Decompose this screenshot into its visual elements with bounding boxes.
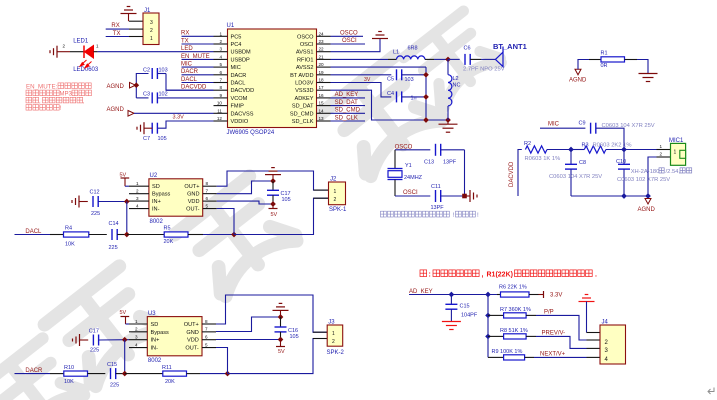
ground (C16): [273, 309, 289, 311]
resistor R7 360K: [488, 314, 504, 316]
wire VDD pin to C16 bottom: [216, 339, 281, 341]
node C16 top junction: [278, 314, 284, 320]
svg-text:8: 8: [205, 319, 208, 324]
resistor R2 1K: [525, 146, 547, 153]
U3 pin 6 stub: [202, 339, 216, 341]
svg-text:1: 1: [674, 150, 677, 156]
U2 pin 7 stub: [203, 193, 217, 195]
svg-text:R6 22K 1%: R6 22K 1%: [499, 285, 527, 291]
wire R1 to ground: [637, 60, 648, 74]
U1 pin 2 stub: [214, 43, 228, 45]
svg-text:103: 103: [159, 68, 168, 74]
svg-text:2: 2: [219, 39, 222, 44]
svg-text:10K: 10K: [65, 242, 75, 248]
svg-text:C13: C13: [424, 159, 434, 165]
svg-text:DACL: DACL: [181, 77, 198, 83]
svg-text:1: 1: [334, 189, 337, 195]
svg-text:C5: C5: [387, 77, 394, 83]
wire LED net: [98, 51, 214, 53]
ground for C7: [144, 127, 152, 129]
svg-text:C15: C15: [107, 362, 117, 368]
wire SD_CMD stub: [331, 112, 366, 114]
capacitor C3 102 (VCOM): [136, 97, 148, 99]
ground (crystal): [465, 195, 471, 197]
svg-text:2: 2: [334, 197, 337, 203]
wire TX to J1: [129, 36, 143, 38]
svg-text:102: 102: [159, 92, 168, 98]
resistor R3 2K2: [571, 149, 584, 151]
U3 pin 2 stub: [129, 331, 147, 333]
svg-text:R7 360K 1%: R7 360K 1%: [500, 307, 531, 313]
power 5V (C17): [272, 204, 274, 209]
svg-text:AGND: AGND: [107, 84, 125, 90]
U1 pin 5 stub: [214, 66, 228, 68]
wire SD_CLK stub: [331, 120, 366, 122]
connector J4: [587, 339, 601, 341]
svg-text:7: 7: [206, 188, 209, 193]
svg-text:RX: RX: [181, 31, 189, 37]
U2 pin 3 stub: [129, 200, 149, 202]
svg-text:1: 1: [332, 331, 335, 337]
svg-text:!: !: [453, 212, 455, 219]
svg-text:225: 225: [91, 211, 100, 217]
svg-text:MIC: MIC: [181, 62, 193, 68]
svg-text:R0603 1K 1%: R0603 1K 1%: [525, 156, 561, 162]
capacitor C13 13PF: [435, 144, 437, 156]
ground for LED1: [56, 46, 58, 58]
svg-text:C2: C2: [143, 68, 150, 74]
ground (R1): [639, 73, 658, 75]
node IN+ junction: [124, 199, 130, 205]
U1 pin 21 stub: [317, 58, 331, 60]
wire C12 to IN+: [98, 201, 129, 203]
svg-text:VCOM: VCOM: [231, 96, 248, 102]
svg-text:6: 6: [205, 335, 208, 340]
svg-text:,: ,: [482, 272, 484, 279]
svg-text:R11: R11: [162, 365, 172, 371]
svg-text:13PF: 13PF: [431, 205, 445, 211]
wire 5V to SD pin: [125, 185, 129, 187]
svg-text:1: 1: [136, 181, 139, 186]
svg-text:C17: C17: [89, 328, 99, 334]
capacitor C12 225: [92, 196, 94, 207]
svg-text:DACVDD: DACVDD: [231, 88, 255, 94]
U1 pin 18 stub: [317, 82, 331, 84]
svg-text:OSCO: OSCO: [297, 34, 314, 40]
node crystal-ground junction: [462, 194, 467, 199]
svg-text:R0603 2K2 1%: R0603 2K2 1%: [593, 143, 632, 149]
svg-text:DACL: DACL: [25, 229, 42, 235]
svg-text:OSCI: OSCI: [342, 38, 357, 44]
svg-text:R5: R5: [164, 226, 171, 232]
svg-text:225: 225: [90, 348, 99, 354]
svg-text:L2: L2: [453, 76, 459, 82]
svg-text:L1: L1: [393, 50, 399, 56]
node C17 bottom junction: [270, 201, 276, 207]
svg-text:LED: LED: [181, 46, 193, 52]
inductor L1 6R8: [397, 56, 425, 60]
svg-text:GND: GND: [187, 192, 199, 198]
svg-text:7: 7: [205, 327, 208, 332]
wire AVSS1 to ground: [331, 39, 381, 52]
wire RX stub (U1 left): [182, 35, 214, 37]
svg-text:2: 2: [332, 339, 335, 345]
wire R7 to J4 pin2: [536, 315, 587, 340]
U1 pin 11 stub: [214, 112, 228, 114]
svg-text:1: 1: [150, 36, 153, 42]
ground (C17b): [79, 334, 81, 346]
capacitor C9 104: [590, 123, 592, 134]
IC U1 JW6905 QSOP24: [228, 29, 317, 128]
svg-text:4: 4: [135, 342, 138, 347]
connector J3 SPK-2: [313, 331, 327, 333]
svg-text:5: 5: [219, 62, 222, 67]
AGND symbol (pin 11): [128, 111, 134, 117]
U1 pin 6 stub: [214, 74, 228, 76]
ground (C17): [265, 174, 281, 176]
node rail-bus junction: [423, 117, 429, 123]
U1 pin 13 stub: [317, 120, 331, 122]
power 5V (C16): [280, 340, 282, 347]
wire LDO3V to C4: [331, 83, 392, 97]
U1 pin 14 stub: [317, 112, 331, 114]
svg-text:!: !: [477, 212, 479, 219]
U1 pin 9 stub: [214, 97, 228, 99]
wire to J2 pin2: [234, 198, 329, 234]
svg-text:Bypass: Bypass: [152, 192, 171, 198]
node OUT- junction: [231, 232, 237, 238]
svg-text:C15: C15: [460, 304, 470, 310]
node bus R7 junction: [485, 313, 491, 319]
svg-text:13: 13: [319, 116, 325, 121]
node mic node junction: [621, 147, 627, 153]
svg-text:IN+: IN+: [152, 199, 161, 205]
svg-text:U1: U1: [227, 23, 235, 29]
capacitor C7 105: [151, 123, 153, 134]
node C17 top junction: [270, 178, 276, 184]
wire C9 to mic node: [596, 128, 624, 149]
svg-text:BT_ANT1: BT_ANT1: [493, 42, 527, 51]
svg-text:R2: R2: [524, 141, 531, 147]
svg-text:EN_MUTE: EN_MUTE: [181, 54, 210, 60]
ground AGND rail: [447, 120, 449, 124]
page mark return symbol: [708, 388, 714, 395]
svg-text:2: 2: [660, 152, 663, 157]
svg-text:DACVSS: DACVSS: [231, 111, 254, 117]
svg-text:R3: R3: [582, 143, 589, 149]
svg-text:U3: U3: [148, 311, 156, 317]
svg-text:C9: C9: [579, 121, 586, 127]
wire R9 to J4 pin4: [534, 356, 587, 358]
node bus R8 junction: [485, 334, 491, 340]
wire to J3 pin2: [228, 339, 328, 374]
svg-text:2: 2: [135, 327, 138, 332]
svg-text:LED1: LED1: [73, 39, 89, 45]
svg-text:C0603 102 X7R 25V: C0603 102 X7R 25V: [617, 177, 670, 183]
svg-text:3: 3: [136, 196, 139, 201]
capacitor C17 105: [272, 181, 274, 190]
U3 pin 3 stub: [129, 339, 147, 341]
capacitor C15 225 (U3 input): [110, 368, 112, 379]
svg-text:R1(22K): R1(22K): [487, 272, 513, 279]
svg-text:5V: 5V: [271, 212, 278, 218]
node RF junction: [445, 57, 451, 63]
wire RFIO1 to L1: [331, 58, 389, 60]
svg-text:9: 9: [219, 93, 222, 98]
svg-text:PREV/V-: PREV/V-: [542, 331, 566, 337]
svg-text:3.3V: 3.3V: [173, 115, 185, 121]
svg-text:BT AVDD: BT AVDD: [290, 73, 313, 79]
U1 pin 17 stub: [317, 89, 331, 91]
wire OSCI bottom: [395, 195, 430, 197]
wire BT AVDD to C5: [331, 74, 392, 76]
svg-text:J4: J4: [602, 320, 609, 326]
capacitor C4 1n: [396, 91, 398, 102]
LED light arrows: [80, 60, 92, 68]
svg-text:C6: C6: [464, 46, 471, 52]
wire R5 to OUT- node: [203, 234, 234, 236]
node R2-R3 junction: [568, 147, 574, 153]
wire IN+ to input node: [126, 202, 128, 235]
svg-text:C10: C10: [616, 159, 626, 165]
svg-text:PC5: PC5: [231, 34, 242, 40]
svg-text:Y1: Y1: [405, 163, 412, 169]
svg-text:SD_CMD: SD_CMD: [335, 108, 361, 114]
U1 pin 24 stub: [317, 35, 331, 37]
wire R8 to J4 pin3: [536, 336, 587, 348]
node rail-AGND junction: [645, 193, 651, 199]
svg-text:105: 105: [282, 197, 291, 203]
U2 pin 2 stub: [129, 193, 149, 195]
svg-text:225: 225: [110, 383, 119, 389]
svg-text:RFIO1: RFIO1: [297, 57, 313, 63]
wire C17b to IN+: [99, 339, 129, 341]
U1 pin 7 stub: [214, 82, 228, 84]
ground AVSS1: [372, 38, 388, 40]
svg-text:SD_CLK: SD_CLK: [335, 115, 358, 121]
svg-text:VDD: VDD: [188, 199, 200, 205]
svg-text:SD: SD: [151, 322, 159, 328]
svg-text:6: 6: [206, 196, 209, 201]
svg-text:OSCI: OSCI: [403, 190, 418, 196]
wire J1 pin1: [129, 20, 143, 22]
crystal Y1 24MHZ: [394, 150, 396, 169]
svg-text:MP3: MP3: [60, 92, 73, 98]
svg-text:PC4: PC4: [231, 42, 242, 48]
wire DACVDD decouple top: [136, 74, 148, 86]
svg-text:SPK-1: SPK-1: [329, 207, 347, 213]
svg-text:AVSS1: AVSS1: [296, 50, 314, 56]
svg-text:104PF: 104PF: [461, 312, 478, 318]
wire VDD pin to C17 bottom: [217, 201, 273, 204]
svg-text:20: 20: [319, 62, 325, 67]
svg-text:/2.54,: /2.54,: [666, 169, 681, 175]
svg-text:C11: C11: [431, 184, 441, 190]
capacitor C6 2.7PF: [448, 58, 460, 60]
wire AGND to R1: [578, 60, 589, 70]
svg-text:EN_MUTE:: EN_MUTE:: [26, 84, 58, 91]
node OUT- junction (U3): [225, 371, 231, 377]
svg-text:AGND: AGND: [569, 78, 587, 84]
svg-text:3.3V: 3.3V: [550, 293, 562, 299]
svg-text:2.7PF NPO 25V: 2.7PF NPO 25V: [463, 67, 505, 73]
svg-text:ADKEY: ADKEY: [295, 96, 314, 102]
svg-text:C4: C4: [387, 91, 394, 97]
svg-text:21: 21: [319, 54, 325, 59]
svg-text:1n: 1n: [411, 96, 417, 102]
U1 pin 20 stub: [317, 66, 331, 68]
wire GND pin to C17 top: [217, 181, 273, 194]
svg-text:C17: C17: [281, 191, 291, 197]
capacitor C5 103: [396, 69, 398, 80]
U1 pin 23 stub: [317, 43, 331, 45]
svg-text:DACVDD: DACVDD: [509, 161, 515, 187]
wire RX to J1: [129, 28, 143, 30]
AGND symbol (caps): [130, 82, 136, 88]
svg-text:OUT+: OUT+: [184, 322, 199, 328]
wire MIC stub (U1 left): [182, 66, 214, 68]
svg-text:7: 7: [219, 78, 222, 83]
svg-text:JW6905 QSOP24: JW6905 QSOP24: [227, 130, 275, 136]
svg-text:SD: SD: [152, 184, 160, 190]
svg-text:6R8: 6R8: [408, 46, 418, 52]
svg-text:C16: C16: [288, 328, 298, 334]
wire SD_DAT stub: [331, 105, 366, 107]
svg-text:AVSS2: AVSS2: [296, 65, 314, 71]
svg-text:20K: 20K: [165, 379, 175, 385]
svg-text:LDO3V: LDO3V: [295, 81, 314, 87]
svg-text:0R: 0R: [601, 63, 608, 69]
node AGND junction (caps): [135, 85, 137, 98]
wire DACVDD stub (mic): [518, 150, 522, 197]
IC U2 8002: [149, 179, 203, 216]
svg-text::: :: [429, 272, 431, 279]
svg-text:R4: R4: [65, 225, 72, 231]
wire OUT+ to J2 pin1: [217, 171, 329, 190]
svg-text:10K: 10K: [64, 379, 74, 385]
node bus-C4 junction: [423, 94, 429, 100]
wire R3 to MIC1: [606, 149, 657, 151]
svg-text:VDD: VDD: [187, 338, 199, 344]
svg-text:USBDM: USBDM: [231, 50, 252, 56]
svg-text:C3: C3: [143, 92, 150, 98]
svg-text:DACVDD: DACVDD: [181, 85, 207, 91]
svg-text:4: 4: [136, 203, 139, 208]
U1 pin 8 stub: [214, 89, 228, 91]
svg-text:16: 16: [319, 93, 325, 98]
svg-text:3: 3: [150, 20, 153, 26]
U2 pin 4 stub: [129, 208, 149, 210]
svg-text:10: 10: [217, 101, 223, 106]
svg-text:SD_DAT: SD_DAT: [292, 104, 314, 110]
svg-text:DACR: DACR: [181, 69, 199, 75]
wire OUT- down: [217, 209, 234, 235]
node bus-C5 junction: [423, 72, 429, 78]
resistor R9 100K: [488, 356, 504, 358]
wire EN_MUTE stub (U1 left): [182, 58, 214, 60]
U2 pin 6 stub: [203, 200, 217, 202]
svg-text:NC: NC: [453, 83, 461, 89]
wire IN+ to input node (U3): [124, 340, 126, 374]
node rail-L2 junction: [445, 117, 451, 123]
wire DACL stub (U1 left): [182, 82, 214, 84]
svg-text:MIC: MIC: [231, 65, 241, 71]
IC U3 8002: [147, 317, 202, 356]
wire VCOM to pin 9: [157, 97, 213, 99]
svg-text:AGND: AGND: [107, 107, 125, 113]
wire MIC to C9: [540, 127, 585, 129]
wire DACL: [15, 234, 51, 236]
svg-text:20K: 20K: [164, 239, 174, 245]
svg-text:8002: 8002: [150, 219, 164, 225]
svg-text:5V: 5V: [278, 349, 285, 355]
resistor R4 10K: [50, 234, 64, 236]
node C10-rail junction: [621, 193, 627, 199]
svg-text:U2: U2: [150, 173, 158, 179]
svg-text:103: 103: [405, 77, 414, 83]
node C16 bottom junction: [278, 337, 284, 343]
svg-text:105: 105: [158, 136, 167, 142]
AGND symbol (mic): [645, 199, 651, 205]
svg-text:C12: C12: [90, 189, 100, 195]
wire decouple bus: [425, 67, 427, 120]
svg-text:R9 100K 1%: R9 100K 1%: [492, 349, 523, 355]
svg-text:SPK-2: SPK-2: [327, 350, 345, 356]
svg-text:SD_CLK: SD_CLK: [292, 119, 314, 125]
svg-text:IN+: IN+: [151, 338, 160, 344]
svg-text:FMIP: FMIP: [231, 104, 245, 110]
wire OSCO: [331, 35, 364, 37]
svg-text:24: 24: [319, 31, 325, 36]
svg-text:VSS3D: VSS3D: [295, 88, 313, 94]
svg-text:DACR: DACR: [25, 368, 43, 374]
wire key bus: [487, 295, 489, 358]
connector MIC1: [657, 149, 671, 151]
U1 pin 4 stub: [214, 58, 228, 60]
capacitor C11 13PF: [435, 190, 437, 202]
svg-text:LED0603: LED0603: [73, 67, 99, 73]
node input node junction: [124, 232, 130, 238]
svg-text:14: 14: [319, 108, 325, 113]
wire TX stub (U1 left): [182, 43, 214, 45]
wire DACR: [15, 373, 51, 375]
ground (C12): [78, 196, 80, 208]
svg-text:GND: GND: [186, 330, 198, 336]
U1 pin 22 stub: [317, 51, 331, 53]
wire OSCO top: [395, 149, 430, 151]
svg-text:13PF: 13PF: [443, 159, 457, 165]
svg-text:1: 1: [660, 144, 663, 149]
node input node junction (U3): [122, 371, 128, 377]
node C15 junction: [449, 292, 455, 298]
svg-text:AD_KEY: AD_KEY: [409, 289, 433, 295]
note text crystal caps: [381, 211, 450, 217]
svg-text:24MHZ: 24MHZ: [404, 175, 423, 181]
svg-text:1: 1: [219, 31, 222, 36]
svg-text:OUT-: OUT-: [185, 346, 198, 352]
svg-text:11: 11: [217, 108, 222, 113]
svg-text:225: 225: [109, 245, 118, 251]
wire VDDIO pin 12: [157, 121, 213, 128]
svg-text:18: 18: [319, 78, 325, 83]
svg-text:8: 8: [219, 85, 222, 90]
U3 pin 8 stub: [202, 323, 216, 325]
svg-text:R8 51K 1%: R8 51K 1%: [500, 328, 528, 334]
wire crystal right leg: [464, 150, 466, 196]
svg-text:DACR: DACR: [231, 73, 247, 79]
U2 pin 8 stub: [203, 185, 217, 187]
svg-text:8: 8: [206, 181, 209, 186]
